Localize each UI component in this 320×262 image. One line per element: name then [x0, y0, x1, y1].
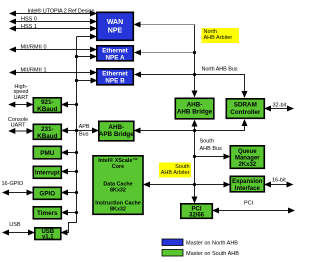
svg-text:AHB-: AHB- — [108, 124, 124, 131]
svg-text:Interrupt: Interrupt — [35, 171, 60, 177]
svg-text:WAN: WAN — [107, 19, 123, 26]
svg-text:USB: USB — [9, 222, 21, 228]
wire to Timers — [62, 212, 77, 214]
box Intel XScale Core — [93, 156, 143, 215]
legend blue swatch — [162, 239, 183, 246]
svg-text:8Kx32: 8Kx32 — [110, 206, 126, 212]
svg-text:Controller: Controller — [230, 109, 261, 116]
wire 32-bit — [265, 108, 293, 110]
wire WAN port4 — [77, 36, 97, 38]
wire NPEB port2 — [77, 80, 97, 82]
wire NPEA port2 — [77, 56, 97, 58]
svg-text:SDRAM: SDRAM — [234, 102, 257, 109]
box Interrupt — [33, 166, 61, 178]
svg-text:North AHB Bus: North AHB Bus — [202, 67, 238, 73]
svg-text:Intel® XScale™: Intel® XScale™ — [98, 157, 138, 164]
wire to PMU — [62, 152, 77, 154]
svg-text:NPE A: NPE A — [105, 54, 124, 61]
svg-text:AHB Arbiter: AHB Arbiter — [204, 35, 233, 41]
box PMU — [33, 146, 61, 159]
wire to 921 — [62, 104, 77, 106]
box 921-KBaud — [33, 98, 61, 113]
wire NPEA right — [135, 52, 195, 54]
wire APB Bus row — [62, 130, 98, 132]
svg-text:PCI: PCI — [244, 201, 254, 207]
box SDRAM Controller — [226, 99, 264, 119]
wire Console UART — [9, 130, 32, 132]
svg-text:GPIO: GPIO — [39, 191, 55, 198]
svg-text:2Kx32: 2Kx32 — [238, 162, 256, 168]
wire USB left — [3, 232, 34, 234]
box USB v1.1 — [35, 228, 61, 240]
svg-text:Core: Core — [112, 164, 124, 170]
svg-text:v1.1: v1.1 — [42, 235, 54, 241]
svg-text:Ethernet: Ethernet — [102, 71, 128, 78]
wire UTOPIA — [10, 13, 96, 15]
box GPIO — [33, 187, 61, 199]
wire north vertical — [194, 25, 196, 97]
svg-text:AHB Arbiter: AHB Arbiter — [161, 170, 190, 176]
wire MII1 — [10, 72, 96, 74]
svg-text:UART: UART — [11, 123, 27, 129]
svg-text:Manager: Manager — [235, 155, 260, 161]
box AHB-AHB Bridge — [175, 98, 214, 119]
wire WAN right to north vertical — [135, 24, 195, 26]
svg-text:South: South — [200, 139, 214, 145]
svg-text:32/66: 32/66 — [189, 213, 205, 219]
wire south vertical — [194, 121, 196, 203]
svg-text:Queue: Queue — [238, 149, 257, 155]
svg-text:NPE B: NPE B — [105, 78, 125, 85]
svg-text:KBaud: KBaud — [37, 106, 57, 113]
svg-text:16-GPIO: 16-GPIO — [2, 181, 24, 187]
svg-text:MII/RMII 0: MII/RMII 0 — [21, 45, 47, 51]
svg-text:Interface: Interface — [235, 186, 261, 192]
svg-text:PCI: PCI — [191, 206, 201, 212]
svg-text:HSS 1: HSS 1 — [21, 24, 37, 30]
box Expansion Interface — [230, 176, 264, 192]
svg-text:KBaud: KBaud — [37, 133, 57, 140]
svg-text:Expansion: Expansion — [232, 179, 263, 185]
svg-text:HSS 0: HSS 0 — [21, 17, 37, 23]
svg-text:Ethernet: Ethernet — [102, 47, 128, 54]
svg-text:MII/RMII 1: MII/RMII 1 — [21, 68, 47, 74]
svg-text:Intel® UTOPIA 2 Ref Design: Intel® UTOPIA 2 Ref Design — [28, 8, 95, 15]
svg-text:Master on North AHB: Master on North AHB — [186, 240, 238, 246]
svg-text:APB: APB — [79, 124, 90, 130]
wire 16-bit — [265, 184, 293, 186]
svg-text:AHB Bus: AHB Bus — [200, 146, 223, 152]
wire North AHB Bus — [135, 75, 245, 98]
svg-text:32-bit: 32-bit — [273, 102, 287, 108]
wire HS UART — [9, 104, 32, 106]
wire to Interrupt — [62, 171, 77, 173]
wire HSS0 — [10, 21, 96, 23]
box South AHB Arbiter — [159, 163, 191, 178]
box Timers — [33, 207, 61, 219]
wire APB vertical — [62, 37, 77, 233]
svg-text:Timers: Timers — [37, 210, 58, 217]
box AHB-APB Bridge — [99, 121, 134, 141]
svg-text:AHB-: AHB- — [187, 101, 203, 108]
box 231-KBaud — [33, 124, 61, 139]
svg-text:NPE: NPE — [108, 28, 123, 35]
box Queue Manager — [230, 146, 264, 169]
svg-text:APB Bridge: APB Bridge — [99, 131, 134, 138]
legend green swatch — [162, 250, 183, 257]
wire to GPIO — [62, 192, 77, 194]
wire queue — [195, 156, 230, 158]
svg-text:UART: UART — [14, 95, 30, 101]
wire core-expansion — [144, 184, 230, 186]
svg-text:AHB Bridge: AHB Bridge — [177, 109, 213, 116]
wire PCI — [213, 210, 294, 212]
wire HSS1 — [10, 28, 96, 30]
svg-text:8Kx32: 8Kx32 — [110, 187, 126, 193]
box Ethernet NPE B — [97, 69, 134, 85]
wire south horizontal — [135, 120, 245, 131]
svg-text:PMU: PMU — [40, 150, 54, 157]
junction dots — [75, 55, 78, 58]
box Ethernet NPE A — [97, 46, 134, 61]
svg-text:Bus: Bus — [79, 132, 89, 138]
box North AHB Arbiter — [202, 28, 240, 43]
box PCI 32/66 — [181, 204, 213, 219]
box WAN NPE — [97, 12, 134, 40]
svg-text:Master on South AHB: Master on South AHB — [186, 251, 239, 257]
wire MII0 — [10, 49, 96, 51]
svg-text:16-bit: 16-bit — [272, 178, 286, 184]
wire 16-GPIO — [3, 192, 33, 194]
